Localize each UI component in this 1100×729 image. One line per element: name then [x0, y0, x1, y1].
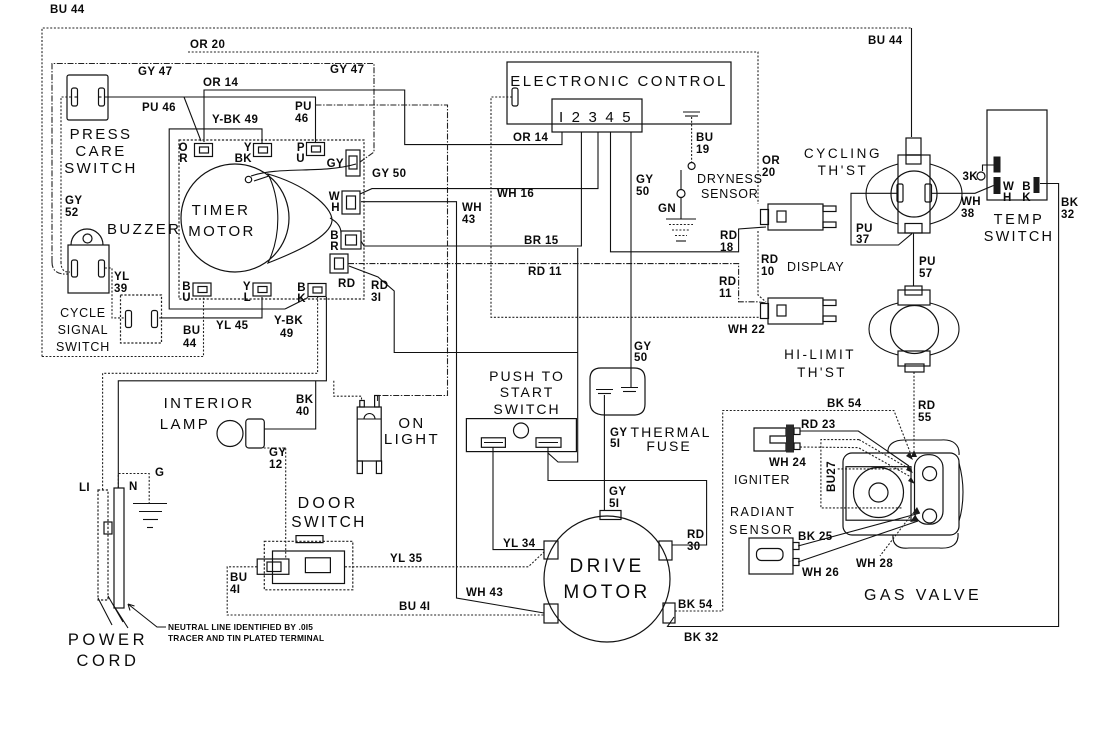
svg-text:BK: BK — [1061, 197, 1079, 209]
buzzer — [68, 221, 181, 293]
hook GY47 to buzzer — [52, 262, 68, 274]
svg-text:3K: 3K — [962, 171, 978, 183]
svg-text:YL: YL — [114, 271, 130, 283]
gas valve — [843, 440, 982, 604]
thermal fuse — [590, 368, 711, 454]
wire RD 11 — [348, 264, 766, 303]
wire BU 27 coil top — [838, 468, 903, 470]
svg-text:N: N — [129, 481, 138, 493]
timer terminal O/R — [179, 142, 213, 165]
svg-text:YL 34: YL 34 — [503, 538, 536, 550]
svg-text:WH 43: WH 43 — [466, 587, 503, 599]
power cord ground symbol — [133, 503, 167, 505]
drive motor — [544, 511, 675, 643]
svg-text:PU: PU — [295, 101, 312, 113]
wire PU 46 diagonal to O/R — [184, 97, 201, 141]
svg-text:ELECTRONIC CONTROL: ELECTRONIC CONTROL — [510, 73, 727, 90]
svg-text:MOTOR: MOTOR — [188, 223, 256, 240]
wire RD 23 — [800, 431, 909, 466]
svg-text:DRIVE: DRIVE — [569, 556, 644, 577]
svg-text:Y-BK 49: Y-BK 49 — [212, 114, 258, 126]
svg-text:U: U — [296, 153, 305, 165]
svg-text:K: K — [1022, 192, 1031, 204]
svg-text:RD 23: RD 23 — [801, 419, 836, 431]
svg-text:OR 14: OR 14 — [203, 77, 238, 89]
svg-text:19: 19 — [696, 144, 710, 156]
svg-text:PU: PU — [919, 256, 936, 268]
svg-text:GY: GY — [609, 486, 626, 498]
svg-text:CYCLE: CYCLE — [60, 306, 106, 320]
svg-text:GY: GY — [269, 447, 286, 459]
wire PU 57 — [913, 234, 915, 286]
svg-text:BU 4I: BU 4I — [399, 601, 430, 613]
svg-text:57: 57 — [919, 268, 933, 280]
wire BK 54 — [675, 411, 910, 612]
wire PU 37 loop — [851, 193, 912, 245]
svg-text:4I: 4I — [230, 584, 240, 596]
svg-text:R: R — [330, 241, 339, 253]
wire GY 52 press-care-left to buzzer — [61, 97, 71, 262]
radiant sensor — [729, 505, 799, 574]
svg-text:BR 15: BR 15 — [524, 235, 559, 247]
wire PU 46 — [105, 97, 316, 143]
cycling thermostat — [804, 138, 962, 233]
wire BU 27 — [821, 440, 902, 508]
svg-text:PU 46: PU 46 — [142, 102, 176, 114]
svg-text:NEUTRAL LINE IDENTIFIED BY .0I: NEUTRAL LINE IDENTIFIED BY .0I5 — [168, 622, 313, 632]
wire RD 55 — [913, 372, 915, 450]
timer terminal RD — [330, 254, 348, 273]
wire BR 15 — [361, 132, 581, 246]
cycle signal switch — [56, 295, 162, 354]
timer terminal B/R — [330, 230, 361, 253]
svg-text:46: 46 — [295, 113, 309, 125]
svg-text:RD: RD — [371, 280, 388, 292]
svg-text:50: 50 — [634, 352, 648, 364]
svg-text:WH 28: WH 28 — [856, 558, 893, 570]
svg-text:RD: RD — [719, 276, 736, 288]
svg-text:PUSH TO: PUSH TO — [489, 368, 565, 384]
svg-text:I2345: I2345 — [559, 109, 639, 126]
wire BK 40 lamp — [264, 381, 315, 429]
timer terminal Y/BK — [235, 142, 272, 165]
ground symbol — [666, 218, 696, 220]
svg-text:Y-BK: Y-BK — [274, 315, 303, 327]
gas valve arrowheads — [906, 452, 913, 460]
svg-text:BK 32: BK 32 — [684, 632, 719, 644]
svg-text:RD: RD — [918, 400, 935, 412]
svg-text:WH 16: WH 16 — [497, 188, 534, 200]
svg-text:32: 32 — [1061, 209, 1075, 221]
svg-text:11: 11 — [719, 288, 732, 300]
wire YL 45 — [159, 297, 262, 318]
svg-text:BU 44: BU 44 — [868, 35, 903, 47]
push to start switch — [466, 368, 576, 452]
svg-text:GY: GY — [65, 195, 82, 207]
svg-text:44: 44 — [183, 338, 197, 350]
svg-text:SWITCH: SWITCH — [291, 514, 367, 531]
svg-text:GY 47: GY 47 — [138, 66, 172, 78]
wire WH 43 vertical — [361, 202, 544, 613]
svg-text:BK 54: BK 54 — [678, 599, 713, 611]
wire BK 32 — [668, 184, 1059, 627]
svg-text:K: K — [297, 293, 306, 305]
svg-text:DISPLAY: DISPLAY — [787, 260, 844, 274]
svg-text:DRYNESS: DRYNESS — [697, 172, 763, 186]
svg-text:MOTOR: MOTOR — [563, 582, 650, 603]
svg-text:RD: RD — [720, 230, 737, 242]
svg-text:50: 50 — [636, 186, 650, 198]
timer terminal B/U — [182, 281, 211, 304]
wire BU 44 bottom segment — [42, 297, 204, 357]
wire YL 35 — [345, 552, 544, 567]
wire RD 31/RD 30 route — [349, 266, 578, 353]
svg-text:SWITCH: SWITCH — [984, 229, 1054, 245]
timer cam pointer — [251, 164, 356, 176]
electronic control — [507, 62, 731, 132]
wire ON-LIGHT left feed — [334, 381, 362, 401]
svg-text:HI-LIMIT: HI-LIMIT — [784, 347, 856, 362]
svg-text:OR: OR — [762, 155, 780, 167]
svg-text:BU 44: BU 44 — [50, 4, 85, 16]
svg-text:L: L — [244, 292, 251, 304]
press care switch — [64, 75, 138, 177]
svg-text:RD: RD — [761, 254, 778, 266]
svg-text:YL 45: YL 45 — [216, 320, 249, 332]
svg-text:BK 54: BK 54 — [827, 398, 862, 410]
svg-text:OR 14: OR 14 — [513, 132, 548, 144]
svg-text:CARE: CARE — [75, 143, 126, 160]
svg-text:40: 40 — [296, 406, 310, 418]
igniter — [734, 425, 800, 488]
wire BU 44 top bus — [42, 28, 912, 357]
timer terminal W/H — [329, 191, 360, 214]
svg-text:RD: RD — [338, 278, 355, 290]
wire BK 25 — [798, 513, 920, 546]
svg-text:BU: BU — [696, 132, 713, 144]
door switch — [257, 495, 367, 590]
timer terminal B/K — [297, 282, 326, 305]
svg-text:GY 47: GY 47 — [330, 64, 364, 76]
neutral note — [128, 604, 166, 627]
wire WH 26 — [798, 521, 918, 562]
svg-text:5I: 5I — [610, 438, 620, 450]
svg-text:GY: GY — [327, 158, 344, 170]
svg-text:TH'ST: TH'ST — [797, 365, 847, 380]
svg-text:BU: BU — [230, 572, 247, 584]
svg-text:TEMP: TEMP — [994, 212, 1045, 228]
svg-text:3I: 3I — [371, 292, 381, 304]
wire WH 24 — [800, 447, 911, 477]
svg-text:GAS VALVE: GAS VALVE — [864, 587, 982, 604]
svg-text:OR 20: OR 20 — [190, 39, 225, 51]
svg-text:SWITCH: SWITCH — [493, 401, 560, 417]
svg-text:FUSE: FUSE — [646, 438, 691, 454]
svg-text:BUZZER: BUZZER — [107, 221, 181, 238]
svg-text:LIGHT: LIGHT — [384, 431, 440, 448]
display connector lower — [761, 298, 837, 324]
svg-text:IGNITER: IGNITER — [734, 473, 790, 487]
svg-text:LAMP: LAMP — [160, 416, 210, 433]
wire YL 39 buzzer to cycle switch — [105, 268, 124, 318]
wire GY 47 — [52, 64, 374, 263]
svg-text:TIMER: TIMER — [192, 202, 251, 219]
svg-text:38: 38 — [961, 208, 975, 220]
wire GY 51 — [603, 395, 605, 510]
svg-text:5I: 5I — [609, 498, 619, 510]
wire OR 20 — [188, 52, 758, 204]
wire RD 30 push to motor — [548, 451, 707, 545]
svg-text:RADIANT: RADIANT — [730, 505, 795, 519]
svg-text:INTERIOR: INTERIOR — [164, 395, 255, 412]
svg-text:37: 37 — [856, 234, 870, 246]
svg-text:39: 39 — [114, 283, 128, 295]
svg-text:R: R — [179, 153, 188, 165]
svg-text:G: G — [155, 467, 164, 479]
svg-text:WH 26: WH 26 — [802, 567, 839, 579]
svg-text:RD 11: RD 11 — [528, 266, 562, 278]
wire BU 19 — [691, 117, 693, 162]
wire L1 bus — [103, 297, 318, 490]
svg-text:WH 22: WH 22 — [728, 324, 765, 336]
wire OR 14 net — [204, 90, 562, 145]
hi-limit thermostat — [784, 286, 959, 380]
svg-text:DOOR: DOOR — [298, 495, 359, 512]
svg-text:TRACER AND TIN PLATED TERMINAL: TRACER AND TIN PLATED TERMINAL — [168, 633, 324, 643]
wire WH 38 — [937, 186, 994, 194]
svg-text:YL 35: YL 35 — [390, 553, 423, 565]
svg-text:SWITCH: SWITCH — [56, 340, 110, 354]
svg-text:GY: GY — [636, 174, 653, 186]
svg-text:20: 20 — [762, 167, 776, 179]
wire Y-BK 49 hook — [169, 129, 285, 309]
timer terminal Y/L — [243, 281, 271, 304]
svg-text:LI: LI — [79, 482, 90, 494]
wire RD 10 display jumper — [758, 231, 766, 302]
svg-text:SWITCH: SWITCH — [64, 160, 138, 177]
svg-text:POWER: POWER — [68, 631, 148, 649]
wire BU 41 — [227, 567, 544, 615]
wire GY 50 vertical EC pin5 to thermal fuse — [630, 132, 632, 387]
svg-text:SENSOR: SENSOR — [729, 523, 794, 537]
svg-text:CYCLING: CYCLING — [804, 146, 882, 161]
interior lamp — [160, 395, 265, 448]
svg-text:GY 50: GY 50 — [372, 168, 406, 180]
wire YL 34 — [493, 447, 544, 550]
svg-text:49: 49 — [280, 328, 294, 340]
svg-text:ON: ON — [398, 415, 425, 432]
svg-text:BU27: BU27 — [826, 461, 838, 492]
svg-text:TH'ST: TH'ST — [818, 163, 869, 178]
svg-text:RD: RD — [687, 529, 704, 541]
svg-text:U: U — [182, 292, 191, 304]
wire GY 50 route from GY terminal — [316, 105, 448, 401]
power cord — [68, 467, 324, 670]
dryness sensor — [658, 163, 763, 242]
wire push-start right leg — [548, 248, 578, 462]
wire WH 28 — [880, 514, 912, 556]
svg-text:12: 12 — [269, 459, 283, 471]
svg-text:PRESS: PRESS — [70, 126, 133, 143]
on light — [357, 396, 440, 474]
wire WH 22 — [491, 97, 761, 317]
svg-text:52: 52 — [65, 207, 79, 219]
svg-text:55: 55 — [918, 412, 932, 424]
svg-text:18: 18 — [720, 242, 734, 254]
svg-text:GN: GN — [658, 203, 676, 215]
wire WH 16 — [360, 132, 598, 194]
svg-text:WH: WH — [462, 202, 482, 214]
svg-text:BK: BK — [296, 394, 314, 406]
svg-text:30: 30 — [687, 541, 701, 553]
svg-text:BK: BK — [235, 153, 253, 165]
wire N to ground — [118, 474, 149, 504]
svg-text:BK 25: BK 25 — [798, 531, 833, 543]
svg-text:BU: BU — [183, 325, 200, 337]
svg-text:WH: WH — [961, 196, 981, 208]
wire GY 12 lamp to door switch — [260, 448, 286, 559]
svg-text:43: 43 — [462, 214, 476, 226]
svg-text:H: H — [1003, 192, 1012, 204]
svg-text:CORD: CORD — [77, 652, 140, 670]
svg-text:WH 24: WH 24 — [769, 457, 806, 469]
timer terminal P/U — [296, 142, 324, 165]
wire RD 18 — [611, 132, 767, 252]
temp switch — [962, 110, 1054, 245]
wire N bus — [118, 297, 326, 488]
svg-text:H: H — [331, 202, 340, 214]
display connector upper — [761, 204, 837, 230]
svg-text:SENSOR: SENSOR — [701, 187, 759, 201]
timer terminal GY — [327, 150, 360, 176]
svg-text:10: 10 — [761, 266, 775, 278]
timer motor — [179, 140, 364, 299]
svg-text:START: START — [500, 384, 555, 400]
svg-text:SIGNAL: SIGNAL — [58, 323, 109, 337]
